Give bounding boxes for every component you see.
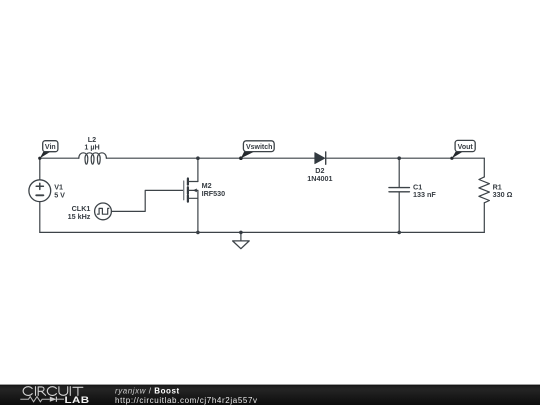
junction M2 drain xyxy=(196,156,200,160)
wire bottom rail xyxy=(40,231,485,233)
value label CLK1 15 kHz xyxy=(68,204,91,221)
CircuitLab logo CIRCUIT xyxy=(23,387,83,396)
CircuitLab logo LAB xyxy=(64,395,89,405)
wire gate (CLK1 to M2 gate) xyxy=(111,190,183,211)
svg-text:Vout: Vout xyxy=(458,144,474,151)
value label D2 1N4001 xyxy=(307,166,332,183)
junction M2 source xyxy=(196,231,200,235)
CircuitLab logo waveform xyxy=(20,397,64,402)
wire C1 bottom lead xyxy=(398,192,400,232)
junction C1 bottom xyxy=(397,231,401,235)
wire V1 top lead xyxy=(39,158,41,180)
junction ground xyxy=(239,231,243,235)
value label R1 330 Ohm xyxy=(493,182,513,199)
footer url xyxy=(115,396,258,405)
node Vswitch flag xyxy=(239,141,274,160)
transistor M2 NMOS xyxy=(184,179,198,202)
svg-text:IRF530: IRF530 xyxy=(202,189,226,198)
wire C1 top lead xyxy=(398,158,400,187)
svg-text:1N4001: 1N4001 xyxy=(307,174,332,183)
diode D2 xyxy=(315,152,326,164)
svg-text:15 kHz: 15 kHz xyxy=(68,212,91,221)
value label M2 IRF530 xyxy=(202,181,226,198)
svg-text:5 V: 5 V xyxy=(54,190,65,199)
svg-text:ryanjxw / Boost: ryanjxw / Boost xyxy=(115,386,180,395)
wire R1 bottom lead xyxy=(483,203,485,233)
ground xyxy=(233,232,250,248)
svg-text:Vswitch: Vswitch xyxy=(246,144,272,151)
wire V1 bottom lead xyxy=(39,202,41,233)
value label L2 1 uH xyxy=(84,135,99,152)
clock source CLK1 xyxy=(95,203,112,220)
wire top rail middle (inductor to diode) xyxy=(106,157,314,159)
voltage source V1 xyxy=(29,180,51,202)
resistor R1 xyxy=(479,177,490,203)
svg-text:Vin: Vin xyxy=(45,144,56,151)
footer title ryanjxw / Boost xyxy=(115,386,180,395)
value label C1 133 nF xyxy=(413,182,436,199)
inductor L2 xyxy=(79,153,107,164)
wire top rail right (diode to Vout corner) xyxy=(326,157,485,159)
svg-text:LAB: LAB xyxy=(64,395,89,405)
capacitor C1 xyxy=(389,188,409,192)
wire M2 drain to top rail xyxy=(197,158,199,181)
svg-text:http://circuitlab.com/cj7h4r2j: http://circuitlab.com/cj7h4r2ja557v xyxy=(115,396,258,405)
svg-text:133 nF: 133 nF xyxy=(413,190,436,199)
junction C1 top xyxy=(397,156,401,160)
footer bar xyxy=(0,385,540,405)
wire R1 top lead xyxy=(483,158,485,177)
node Vin flag xyxy=(38,141,58,160)
wire M2 source to bottom rail xyxy=(197,198,199,232)
svg-text:1 µH: 1 µH xyxy=(84,142,99,151)
node Vout flag xyxy=(450,140,475,159)
value label V1 5 V xyxy=(54,183,65,200)
svg-text:330 Ω: 330 Ω xyxy=(493,190,513,199)
wire top rail left (Vin node to inductor) xyxy=(40,157,79,159)
